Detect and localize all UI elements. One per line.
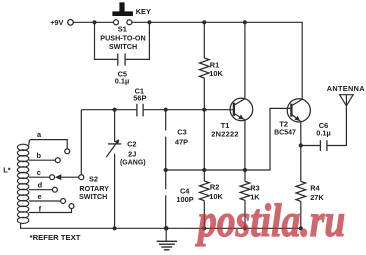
transistor T1 emitter xyxy=(234,114,245,171)
svg-text:S2: S2 xyxy=(89,175,98,184)
switch contact b xyxy=(55,158,60,163)
capacitor C6 xyxy=(319,140,321,151)
svg-text:0.1µ: 0.1µ xyxy=(115,77,130,86)
switch S2 wiper arrow xyxy=(55,174,61,180)
resistor R1 xyxy=(200,58,210,78)
junction emitter rail at T1 emitter xyxy=(243,168,247,172)
wire S2 pole riser xyxy=(80,110,82,175)
switch S1 key plunger xyxy=(112,2,132,16)
capacitor C3 bottom lead xyxy=(165,137,167,170)
svg-text:R3: R3 xyxy=(250,184,259,193)
transistor T2 collector xyxy=(291,99,302,106)
wire R4 bottom lead xyxy=(300,201,302,228)
switch contact c xyxy=(50,175,55,180)
switch contact a xyxy=(65,149,70,154)
junction mid rail at C2 xyxy=(113,108,117,112)
wire C5 left branch xyxy=(95,22,118,59)
watermark postila.ru xyxy=(194,195,345,247)
junction emitter rail at R2 xyxy=(202,168,206,172)
svg-text:b: b xyxy=(37,151,42,160)
svg-text:BC547: BC547 xyxy=(274,129,296,136)
svg-text:+9V: +9V xyxy=(50,18,63,27)
svg-text:KEY: KEY xyxy=(136,7,151,16)
capacitor C1 xyxy=(136,104,138,117)
junction mid rail at R1/R2 xyxy=(202,108,206,112)
junction bottom rail at R2 xyxy=(202,226,206,230)
junction mid rail at C3 xyxy=(164,108,168,112)
svg-text:SWITCH: SWITCH xyxy=(109,42,137,51)
svg-text:SWITCH: SWITCH xyxy=(79,192,107,201)
svg-text:ANTENNA: ANTENNA xyxy=(327,84,366,93)
wire emitter node rail and T2 base feed xyxy=(166,108,292,170)
resistor R2 xyxy=(200,181,210,201)
resistor R4 xyxy=(296,181,306,201)
svg-text:(GANG): (GANG) xyxy=(120,160,146,167)
wire C3 top lead xyxy=(165,110,167,131)
inductor L coil xyxy=(17,144,28,150)
wire R1-R2 column segment xyxy=(203,110,205,181)
svg-text:C3: C3 xyxy=(177,128,186,137)
transistor T2 emitter xyxy=(291,114,300,145)
junction bottom rail at R4 xyxy=(299,226,303,230)
wire T2 emitter to C6 xyxy=(301,145,320,147)
transistor T1 collector xyxy=(234,22,245,105)
junction bottom rail at ground xyxy=(164,226,169,231)
svg-text:47P: 47P xyxy=(175,138,188,147)
svg-text:T2: T2 xyxy=(279,120,288,129)
junction T2 emitter node xyxy=(299,143,303,147)
svg-text:100P: 100P xyxy=(176,195,193,204)
svg-text:10K: 10K xyxy=(209,69,223,78)
switch contact d xyxy=(52,187,57,192)
svg-text:c: c xyxy=(37,168,41,177)
svg-text:2N2222: 2N2222 xyxy=(211,129,238,138)
wire top rail from +9V to S1 xyxy=(74,21,114,23)
wire top rail from S1 to right corner then down to T2 collector xyxy=(132,22,302,99)
wire tap e xyxy=(29,200,60,202)
transistor T2 circle xyxy=(287,99,310,122)
junction top-left of C5 branch xyxy=(92,20,96,24)
svg-text:56P: 56P xyxy=(133,94,146,103)
capacitor C4 bottom lead xyxy=(165,195,167,228)
junction top rail at R1 xyxy=(202,20,206,24)
wire tap c xyxy=(29,176,49,178)
transistor T2 base bar xyxy=(290,104,292,117)
wire R3 top lead xyxy=(244,170,246,181)
wire bottom ground rail xyxy=(21,223,302,229)
wire R3 bottom lead xyxy=(244,200,246,228)
junction bottom rail at R3 xyxy=(243,226,247,230)
wire C5 right branch xyxy=(126,22,150,59)
wire tap f xyxy=(29,209,72,213)
transistor T1 base bar xyxy=(233,103,235,116)
svg-text:R1: R1 xyxy=(210,60,219,69)
transistor T1 circle xyxy=(230,98,253,121)
switch S2 pole terminal xyxy=(79,175,84,180)
wire C4 top lead xyxy=(165,170,167,189)
wire coil top to tap a xyxy=(29,140,68,149)
svg-text:C2: C2 xyxy=(127,139,136,148)
svg-text:postila.ru: postila.ru xyxy=(194,195,345,247)
svg-text:e: e xyxy=(37,192,41,201)
switch contact f xyxy=(69,204,74,209)
svg-text:L*: L* xyxy=(3,166,11,175)
svg-text:R4: R4 xyxy=(310,184,320,193)
ground symbol xyxy=(165,228,167,241)
switch S2 pole wire xyxy=(61,176,78,178)
wire R1 top lead xyxy=(203,22,205,58)
svg-text:R2: R2 xyxy=(210,183,219,192)
capacitor C5 xyxy=(117,54,119,66)
switch S1 right contact xyxy=(127,20,132,25)
junction top rail at C5 right branch xyxy=(147,20,151,24)
wire tap d xyxy=(29,189,52,191)
wire R2 bottom lead xyxy=(203,201,205,229)
capacitor C2 variable gang xyxy=(108,143,121,145)
wire mid rail right of C1 to T1 base xyxy=(144,109,234,111)
switch contact e xyxy=(61,199,66,204)
svg-text:0.1µ: 0.1µ xyxy=(316,129,331,138)
wire C2 top lead xyxy=(114,110,116,142)
wire R1 bottom lead to base wire xyxy=(203,78,205,110)
junction emitter rail at C3/C4 xyxy=(164,168,168,172)
wire C6 to antenna xyxy=(328,106,347,146)
antenna symbol xyxy=(340,95,354,106)
svg-text:S1: S1 xyxy=(118,24,127,33)
svg-text:d: d xyxy=(38,181,43,190)
wire tap b xyxy=(29,159,55,161)
svg-text:*REFER TEXT: *REFER TEXT xyxy=(30,233,81,242)
junction bottom rail at C2 xyxy=(113,226,117,230)
svg-text:2J: 2J xyxy=(128,149,136,158)
wire R4 top lead xyxy=(300,146,302,182)
switch S1 left contact xyxy=(114,20,119,25)
resistor R3 xyxy=(240,181,250,200)
wire C2 bottom lead xyxy=(114,154,116,229)
wire mid rail left of C1 xyxy=(81,109,136,111)
+9V terminal xyxy=(68,20,74,26)
junction top rail at T1 collector xyxy=(243,20,247,24)
